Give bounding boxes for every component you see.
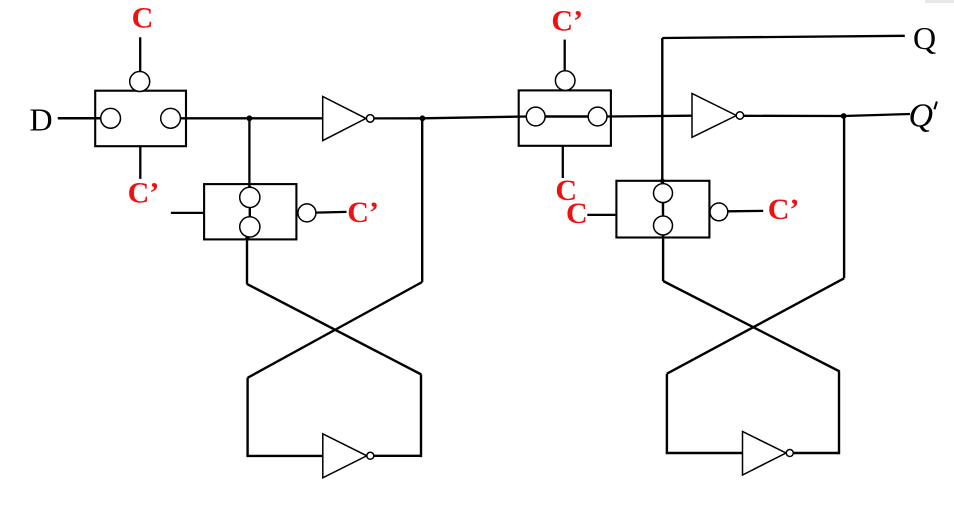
wire TG2 bottom stub down to loop [245,236,249,284]
wire slave loop right vertical lower [838,372,840,455]
node Q' junction dot [841,113,847,119]
wire TG3 output to inverter U3 [607,115,692,118]
svg-text:Q: Q [913,20,936,56]
wire master loop right vertical lower [420,375,422,458]
stub TG4 gate bubble to C' label [728,210,763,213]
label C (TG4 left) [566,197,588,230]
wire master loop diagonal (top-right to bottom-left) [248,282,423,378]
wire slave loop left vertical lower [666,374,668,453]
label Q' (inverted output) [909,98,937,135]
clock stub C at TG3 bottom [562,146,564,178]
wire Q tap vertical (down to TG4) [661,38,663,184]
transmission gate TG3 (input gate, slave) [519,71,611,146]
label C (clock, TG1 top) [132,2,154,35]
transmission gate TG1 (input gate, master) [95,72,186,147]
wire node B down (master loop right vertical upper) [421,118,423,282]
label C' (clock, TG1 bottom) [128,176,160,209]
wire Q' node down (slave loop right vertical upper) [843,116,845,278]
label C (clock, TG3 bottom) [555,174,577,207]
stub TG2 gate bubble to C' label [316,211,347,214]
wire U4 output [793,452,839,454]
wire U2 output [374,455,421,457]
svg-text:C’: C’ [347,196,379,229]
label Q (output) [913,20,936,56]
wire slave loop diagonal (top-left to bottom-right) [663,281,840,372]
svg-text:C: C [132,2,154,35]
wire TG1 output to inverter U1 [181,117,323,119]
wire node B to TG3 [422,117,526,119]
inverter U4 (slave feedback) [743,432,794,476]
svg-text:Q: Q [909,98,934,135]
wire slave loop diagonal (top-right to bottom-left) [667,278,844,373]
inverter U1 (master forward) [323,97,374,141]
wire master loop left vertical lower [246,378,248,456]
node dot at TG4 top [660,179,665,184]
svg-text:C’: C’ [128,176,160,209]
wire master loop bottom to U2 input [246,455,322,457]
wire TG4 bottom stub down to slave loop [662,235,664,281]
clock stub C' at TG3 top [564,40,566,71]
wire slave loop bottom to U4 input [666,452,743,454]
label C' (TG2 gate) [347,196,379,229]
svg-text:C’: C’ [768,193,800,226]
wire master loop diagonal (top-left to bottom-right) [247,284,421,375]
svg-text:C: C [566,197,588,230]
wire node A down to TG2 [247,118,251,190]
node A junction dot [247,115,253,121]
node B junction dot [420,115,426,121]
clock stub C' at TG1 bottom [139,146,141,179]
stub wire C to TG4 left [587,214,616,216]
transmission gate TG4 (feedback gate, slave) [616,181,727,238]
label C' (TG4 gate) [768,193,800,226]
svg-text:D: D [30,101,53,137]
inverter U3 (slave forward) [692,94,744,138]
svg-text:C’: C’ [551,5,583,38]
clock stub C at TG1 top [139,37,141,71]
wire D input [58,117,101,120]
transmission gate TG2 (feedback gate, master) [204,184,316,239]
inverter U2 (master feedback) [323,434,374,478]
wire Q horizontal [662,36,905,38]
label C' (clock, TG3 top) [551,5,583,38]
label D (data input) [30,101,53,137]
wire U1 output to node B [374,117,422,119]
wire U3 output to Q' [744,114,910,116]
screen artifact grey bar top-right [925,0,954,3]
stub wire at TG2 left [171,212,204,214]
